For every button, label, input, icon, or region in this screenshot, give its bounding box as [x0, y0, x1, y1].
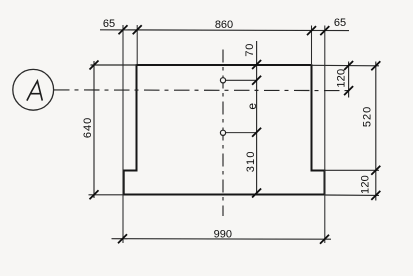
- section marker letter A: [27, 81, 42, 101]
- svg-text:65: 65: [103, 18, 115, 30]
- tick top dim at x=137: [133, 25, 142, 34]
- section marker circle A: [13, 69, 54, 110]
- tick bottom dim at x=122.5: [118, 234, 127, 243]
- svg-text:990: 990: [214, 228, 232, 240]
- tick inner dim at y=193: [252, 189, 261, 198]
- node 2: [220, 130, 225, 135]
- tick left dim at y=194.8: [90, 190, 99, 199]
- svg-text:70: 70: [244, 43, 256, 57]
- right outer dimension line (520/120): [375, 62, 377, 201]
- tick inner dim at y=132.3: [252, 128, 261, 137]
- tick group: [90, 25, 381, 243]
- node 2 leader line: [225, 132, 257, 134]
- top wall right extension line: [312, 64, 380, 67]
- svg-text:640: 640: [82, 117, 94, 138]
- svg-text:310: 310: [245, 150, 257, 172]
- top dimension line: [100, 29, 349, 32]
- svg-text:120: 120: [359, 175, 371, 194]
- tick left dim at y=65: [90, 61, 99, 70]
- bottom dimension line (990): [112, 238, 332, 241]
- tick top dim at x=325: [320, 26, 329, 35]
- bottom wall left extension line: [89, 194, 124, 196]
- tick right outer dim at y=195.4: [371, 191, 380, 200]
- tick inner dim at y=65: [252, 60, 261, 69]
- node 1 leader line: [225, 79, 257, 81]
- tick right outer dim at y=65.8: [371, 61, 380, 70]
- svg-text:860: 860: [215, 19, 233, 31]
- svg-text:65: 65: [334, 17, 346, 29]
- tick right outer dim at y=170.3: [371, 166, 380, 175]
- bottom wall right extension line: [325, 194, 380, 196]
- top wall: [137, 64, 312, 66]
- tick inner dim at y=80.3: [252, 76, 261, 85]
- extension line x=324.5 (65 right / 990 right): [324, 26, 326, 244]
- extension line x=123 (65 left / 990 left): [122, 25, 124, 243]
- left wall with step: [124, 64, 137, 194]
- right inner dimension line (120 top): [348, 62, 350, 98]
- left dimension line (640): [93, 61, 95, 198]
- inner dimension line (70/e/310): [256, 41, 258, 195]
- svg-text:520: 520: [361, 106, 373, 127]
- top wall left extension line: [91, 64, 137, 66]
- right wall with step: [312, 64, 325, 194]
- vertical centerline: [222, 50, 224, 217]
- bottom wall: [123, 194, 326, 196]
- tick right inner dim at y=65.5: [344, 61, 353, 70]
- tick right inner dim at y=90.6: [344, 86, 353, 95]
- node 1: [220, 78, 225, 83]
- tick bottom dim at x=324.5: [320, 235, 329, 244]
- tick top dim at x=123: [119, 25, 128, 34]
- svg-text:e: e: [245, 103, 259, 110]
- extension line x=311.5 above wall (860 right): [311, 26, 313, 65]
- extension line x=137 (860 left): [136, 25, 138, 64]
- horizontal centerline: [54, 89, 351, 92]
- tick top dim at x=311.5: [307, 26, 316, 35]
- svg-text:120: 120: [335, 69, 347, 88]
- right step extension line: [325, 169, 380, 171]
